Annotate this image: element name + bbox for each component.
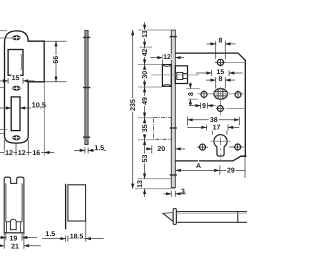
svg-text:8: 8: [218, 38, 222, 45]
svg-text:66: 66: [53, 56, 60, 64]
svg-text:13: 13: [137, 180, 144, 188]
svg-text:38: 38: [210, 117, 218, 124]
svg-text:8: 8: [188, 92, 195, 96]
svg-text:20: 20: [157, 146, 165, 153]
svg-text:35: 35: [142, 124, 149, 132]
svg-text:42: 42: [142, 49, 149, 57]
svg-text:12: 12: [163, 54, 171, 61]
svg-text:A: A: [196, 163, 201, 170]
svg-text:15: 15: [12, 75, 20, 82]
svg-text:30: 30: [142, 71, 149, 79]
svg-text:18.5: 18.5: [70, 233, 84, 240]
svg-text:29: 29: [227, 167, 235, 174]
svg-text:19: 19: [10, 235, 18, 242]
svg-text:1.5: 1.5: [94, 145, 104, 152]
svg-text:13: 13: [142, 30, 149, 38]
svg-text:8: 8: [218, 76, 222, 83]
svg-text:49: 49: [142, 97, 149, 105]
svg-text:1.5: 1.5: [45, 231, 55, 238]
svg-text:16: 16: [32, 150, 40, 157]
svg-text:15: 15: [216, 69, 224, 76]
svg-text:21: 21: [11, 244, 19, 251]
svg-text:3: 3: [181, 189, 185, 196]
svg-text:235: 235: [130, 99, 137, 111]
svg-text:53: 53: [142, 155, 149, 163]
svg-text:12: 12: [5, 150, 13, 157]
svg-text:9: 9: [202, 103, 206, 110]
svg-text:12: 12: [18, 150, 26, 157]
svg-text:10,5: 10,5: [32, 101, 46, 110]
svg-text:17: 17: [213, 125, 221, 132]
